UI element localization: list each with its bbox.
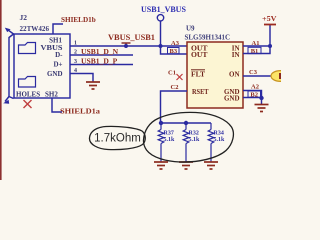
wire circle stem (160, 21, 162, 46)
junction R37 (159, 121, 163, 125)
svg-text:B3: B3 (170, 48, 178, 55)
wire C3 (243, 75, 271, 77)
ground R34 (204, 162, 218, 169)
svg-text:USB1_D_N: USB1_D_N (81, 47, 119, 56)
wire A1 (243, 45, 270, 47)
svg-text:5.1k: 5.1k (189, 137, 201, 143)
FLT overline (191, 69, 205, 71)
wire B1 (243, 46, 270, 54)
connector J2 body (5, 29, 70, 101)
wire ground stem (261, 98, 263, 105)
connector arrow bottom (3, 100, 9, 104)
wire B3 branch (161, 46, 188, 54)
svg-text:SHIELD1b: SHIELD1b (61, 16, 96, 24)
junction R32 (184, 121, 188, 125)
svg-text:SHIELD1a: SHIELD1a (60, 108, 100, 116)
svg-text:R37: R37 (164, 131, 174, 137)
svg-text:A2: A2 (251, 84, 259, 91)
ground R37 (154, 162, 168, 169)
ground U9 (255, 105, 269, 112)
wire D- stub (70, 54, 133, 56)
svg-text:ON: ON (229, 71, 240, 79)
net label tick (122, 43, 131, 46)
annotation blob around resistors (143, 112, 233, 162)
wire resistor bus (161, 122, 211, 124)
svg-text:22TW426: 22TW426 (20, 24, 50, 33)
svg-text:GND: GND (47, 70, 63, 78)
power +5V bar (264, 24, 276, 26)
wire +5V stem (269, 25, 271, 47)
svg-text:SLG59H1341C: SLG59H1341C (185, 34, 231, 42)
sheet border (0, 0, 2, 180)
svg-text:D-: D- (55, 51, 63, 59)
annotation bubble 1.7kOhm (89, 126, 145, 149)
wire B2 (243, 97, 262, 99)
wire A2 (243, 91, 262, 99)
pin label B3 boxed (168, 48, 180, 54)
svg-text:USB1_VBUS: USB1_VBUS (141, 5, 186, 14)
wire SH1 stub (53, 24, 63, 34)
resistor R37 (158, 123, 164, 162)
svg-text:5.1k: 5.1k (214, 137, 226, 143)
wire D+ stub (70, 64, 133, 66)
wire VBUS main (70, 45, 187, 47)
svg-text:FLT: FLT (191, 71, 205, 79)
wire SH2 stub (52, 98, 62, 112)
pin label B1 boxed (248, 47, 261, 53)
pin label B2 boxed (248, 91, 261, 97)
resistor R34 (208, 123, 214, 162)
svg-text:VBUS_USB1: VBUS_USB1 (108, 33, 155, 42)
junction VBUS/B3 (159, 44, 163, 48)
junction A2B2 (259, 96, 263, 100)
no-ERC X on C1 (177, 74, 183, 80)
usb plug icon upper (19, 43, 36, 54)
svg-text:C1: C1 (168, 70, 176, 77)
IC U9 body (187, 42, 243, 108)
svg-text:U9: U9 (186, 25, 195, 33)
svg-text:USB1_D_P: USB1_D_P (81, 57, 118, 66)
svg-text:D+: D+ (53, 60, 62, 68)
svg-text:IN: IN (232, 51, 240, 59)
svg-text:C2: C2 (171, 84, 179, 91)
junction +5V (268, 44, 272, 48)
svg-text:SH2: SH2 (45, 91, 58, 99)
svg-text:C3: C3 (249, 69, 258, 76)
svg-text:+5V: +5V (262, 15, 277, 23)
svg-text:5.1k: 5.1k (164, 137, 176, 143)
connector arrow top (5, 28, 11, 32)
svg-text:RSET: RSET (192, 88, 209, 96)
svg-text:1.7kOhm: 1.7kOhm (94, 133, 141, 145)
svg-text:A3: A3 (171, 40, 180, 47)
ground pin4 (86, 82, 100, 89)
svg-text:R34: R34 (214, 131, 224, 137)
wire GND pin4 (70, 74, 93, 83)
svg-text:R32: R32 (189, 131, 199, 137)
svg-text:OUT: OUT (191, 51, 208, 59)
port text mark (279, 73, 281, 79)
port C3 yellow (271, 71, 290, 82)
wire RSET C2 (161, 91, 188, 123)
svg-text:GND: GND (224, 94, 240, 102)
svg-text:HOLES: HOLES (16, 91, 40, 99)
svg-text:J2: J2 (20, 13, 28, 22)
resistor R32 (183, 123, 189, 162)
power port circle (157, 15, 163, 21)
ground R32 (179, 162, 193, 169)
usb plug icon lower (19, 77, 36, 88)
no-ERC X on HOLES pin (24, 100, 32, 108)
